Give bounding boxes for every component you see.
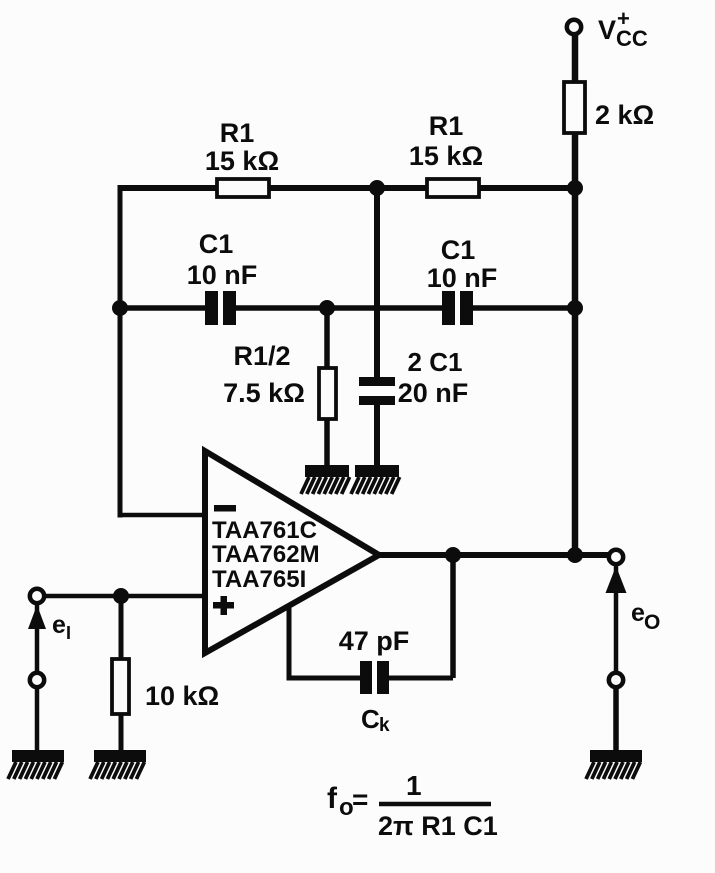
resistor R1 left 15k [205, 118, 279, 197]
wire feedback right vertical [450, 555, 456, 678]
svg-text:2π R1 C1: 2π R1 C1 [378, 811, 498, 841]
svg-text:C1: C1 [199, 229, 234, 259]
svg-text:=: = [352, 784, 368, 815]
formula fo = 1/(2pi R1 C1) [327, 770, 498, 841]
op-amp U1 [205, 451, 379, 653]
junction dot right C-line [567, 300, 583, 316]
svg-text:R1: R1 [429, 111, 464, 141]
capacitor C1 left 10nF [187, 229, 258, 327]
arrow output eO [606, 566, 661, 634]
wire R1/2 branch [324, 308, 330, 467]
svg-text:15 kΩ: 15 kΩ [409, 141, 483, 171]
wire R-midpoint vertical lower [374, 404, 380, 467]
svg-text:10 nF: 10 nF [187, 260, 258, 290]
svg-text:20 nF: 20 nF [398, 378, 469, 408]
terminal output eO [609, 550, 623, 564]
wire input source branch [35, 596, 40, 752]
svg-text:7.5 kΩ: 7.5 kΩ [223, 378, 305, 408]
junction dot feedback tap [445, 547, 461, 563]
arrow input eI [28, 605, 71, 643]
svg-text:47 pF: 47 pF [339, 626, 410, 656]
wire inverting input [118, 513, 209, 518]
svg-text:10 kΩ: 10 kΩ [145, 681, 219, 711]
wire C-line [120, 305, 575, 311]
terminal output eO bottom [609, 673, 623, 687]
wire non-inverting input [37, 594, 208, 599]
ground (R1/2 branch) [301, 465, 350, 494]
svg-text:R1/2: R1/2 [233, 341, 290, 371]
resistor 2k [564, 82, 654, 133]
terminal input eI bottom [30, 673, 44, 687]
wire output [379, 552, 612, 558]
svg-text:O: O [644, 611, 660, 634]
svg-text:TAA762M: TAA762M [212, 541, 320, 568]
resistor 10k [112, 659, 219, 714]
junction dot right R-line [567, 180, 583, 196]
capacitor Ck 47pF [339, 626, 410, 736]
wire left vertical [118, 185, 123, 518]
junction dot output right [567, 547, 583, 563]
svg-text:e: e [631, 599, 645, 627]
svg-text:2 kΩ: 2 kΩ [595, 100, 654, 130]
terminal input eI top [30, 589, 44, 603]
ground (10k branch) [90, 750, 146, 779]
svg-text:TAA761C: TAA761C [212, 517, 317, 544]
wire R-midpoint vertical upper [374, 188, 380, 378]
junction dot R midpoint [369, 180, 385, 196]
terminal Vcc [567, 6, 648, 51]
svg-text:15 kΩ: 15 kΩ [205, 146, 279, 176]
ground (2C1 branch) [351, 465, 400, 494]
svg-text:+: + [617, 6, 630, 31]
ground (output probe) [586, 750, 642, 779]
svg-text:k: k [379, 715, 390, 736]
svg-text:10 nF: 10 nF [427, 263, 498, 293]
wire output probe lower [613, 680, 619, 752]
svg-text:I: I [66, 623, 71, 643]
svg-text:2 C1: 2 C1 [408, 347, 463, 377]
capacitor 2C1 20nF [354, 347, 468, 408]
junction dot non-inverting input [113, 588, 129, 604]
resistor R1/2 7.5k [223, 341, 336, 419]
capacitor C1 right 10nF [427, 235, 498, 327]
svg-text:TAA765I: TAA765I [212, 566, 306, 593]
svg-text:1: 1 [406, 770, 422, 801]
wire 10k branch [119, 596, 124, 752]
ground (input source) [8, 750, 64, 779]
wire feedback left vertical [287, 608, 292, 678]
wire feedback bottom [287, 676, 454, 681]
wire output probe branch [614, 558, 619, 680]
svg-text:f: f [327, 782, 338, 815]
junction dot C midpoint [319, 300, 335, 316]
resistor R1 right 15k [409, 111, 483, 197]
svg-text:V: V [598, 15, 616, 45]
svg-text:R1: R1 [220, 118, 255, 148]
svg-text:e: e [52, 611, 66, 639]
junction dot left C-line [112, 300, 128, 316]
wire top R-line [120, 185, 575, 191]
svg-text:C1: C1 [441, 235, 476, 265]
wire right vertical Vcc-to-output [572, 33, 579, 555]
svg-text:C: C [361, 704, 380, 734]
